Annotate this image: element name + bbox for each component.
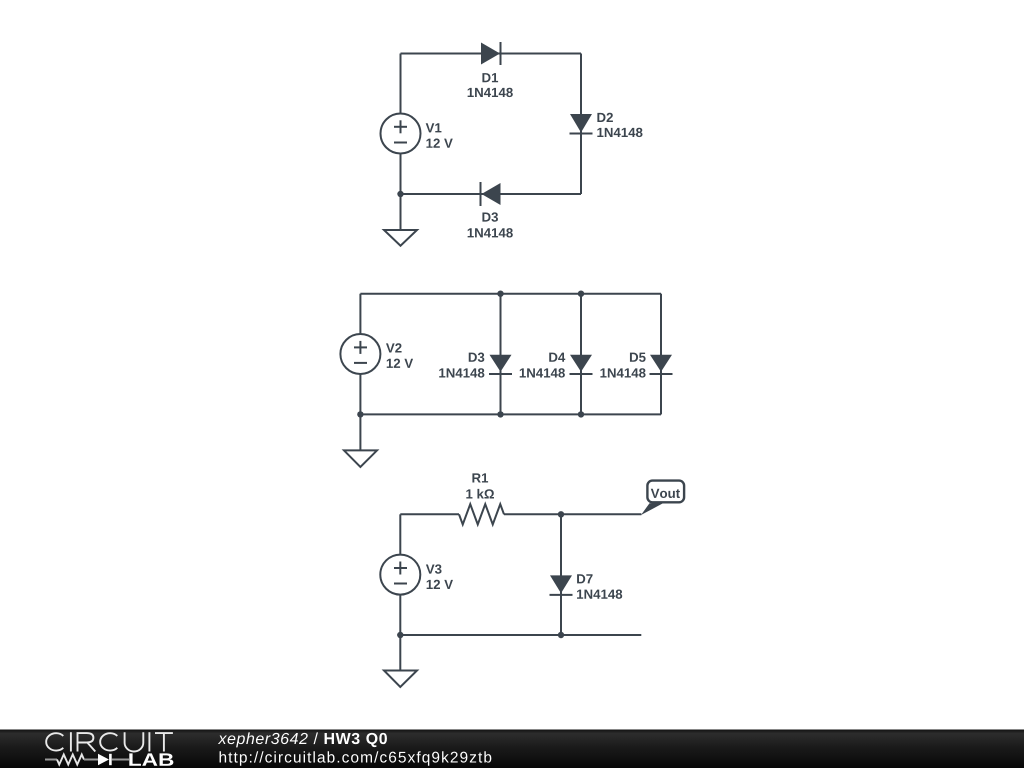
diode D7 bbox=[550, 575, 573, 595]
footer bar bbox=[0, 730, 1024, 768]
logo CIRCUIT letter U bbox=[125, 732, 144, 751]
label D5 bbox=[600, 353, 645, 378]
node junction middle bottom left column bbox=[497, 411, 503, 417]
logo CIRCUIT letter R bbox=[78, 733, 96, 751]
node junction bottom circuit diode bbox=[558, 632, 564, 638]
diode D2 bbox=[570, 114, 593, 134]
logo CIRCUIT letter I1 bbox=[70, 732, 72, 751]
voltage source V2 bbox=[340, 334, 380, 374]
footer url text bbox=[220, 751, 492, 765]
label V2 value bbox=[386, 343, 413, 368]
label V1 value bbox=[426, 123, 453, 148]
wire bottom circuit left upper bbox=[399, 514, 401, 554]
label V3 value bbox=[426, 564, 453, 589]
node junction middle bottom mid column bbox=[578, 411, 584, 417]
ground bottom circuit bbox=[384, 635, 417, 687]
wire top circuit bottom bbox=[401, 193, 582, 195]
logo LAB text bbox=[129, 753, 173, 765]
node junction middle top mid column bbox=[578, 291, 584, 297]
logo CIRCUIT letter I2 bbox=[148, 732, 150, 751]
node junction middle top left column bbox=[497, 291, 503, 297]
label R1 value bbox=[466, 473, 494, 498]
logo CIRCUIT letter C2 bbox=[100, 733, 117, 750]
voltage source V1 bbox=[381, 114, 421, 154]
wire middle circuit bottom bbox=[360, 413, 661, 415]
logo CIRCUIT letter T bbox=[155, 733, 173, 751]
wire diode column D3 bbox=[500, 294, 502, 415]
ground top circuit bbox=[384, 194, 417, 246]
wire diode column D7 bbox=[560, 514, 562, 635]
wire bottom circuit bottom bbox=[400, 634, 641, 636]
wire top circuit right bbox=[580, 54, 582, 195]
diode D3 middle circuit bbox=[489, 355, 512, 374]
wire bottom circuit top left bbox=[400, 513, 459, 515]
voltage source V3 bbox=[380, 555, 420, 595]
wire middle circuit left lower bbox=[359, 374, 361, 414]
diode D3 top circuit bbox=[481, 182, 501, 206]
wire middle circuit left upper bbox=[359, 294, 361, 334]
flag Vout bbox=[641, 481, 684, 515]
node junction bottom circuit ground bbox=[397, 632, 403, 638]
diode D1 bbox=[481, 42, 501, 65]
wire top circuit left lower bbox=[400, 154, 402, 195]
wire bottom circuit left lower bbox=[399, 595, 401, 635]
wire top circuit top bbox=[401, 53, 582, 55]
logo CIRCUIT letter C1 bbox=[46, 733, 63, 750]
wire diode column D5 bbox=[660, 294, 662, 415]
node junction middle bottom ground bbox=[357, 411, 363, 417]
label D3 middle circuit bbox=[439, 353, 484, 378]
logo diode symbol bbox=[98, 754, 129, 765]
node junction bottom circuit top bbox=[558, 511, 564, 517]
label D3 top circuit bbox=[468, 212, 513, 237]
label D1 bbox=[468, 73, 513, 97]
label D4 bbox=[520, 353, 566, 378]
label D2 bbox=[597, 113, 642, 137]
wire top circuit left upper bbox=[400, 54, 402, 114]
wire bottom circuit top right bbox=[504, 513, 641, 515]
label D7 bbox=[577, 574, 622, 599]
ground middle circuit bbox=[344, 414, 377, 467]
footer title text bbox=[218, 732, 387, 747]
wire middle circuit top bbox=[360, 293, 661, 295]
logo resistor symbol bbox=[45, 755, 98, 765]
resistor R1 bbox=[459, 504, 504, 524]
diode D5 bbox=[650, 355, 673, 374]
wire diode column D4 bbox=[580, 294, 582, 415]
node junction top circuit bbox=[397, 191, 403, 197]
diode D4 bbox=[570, 355, 593, 374]
